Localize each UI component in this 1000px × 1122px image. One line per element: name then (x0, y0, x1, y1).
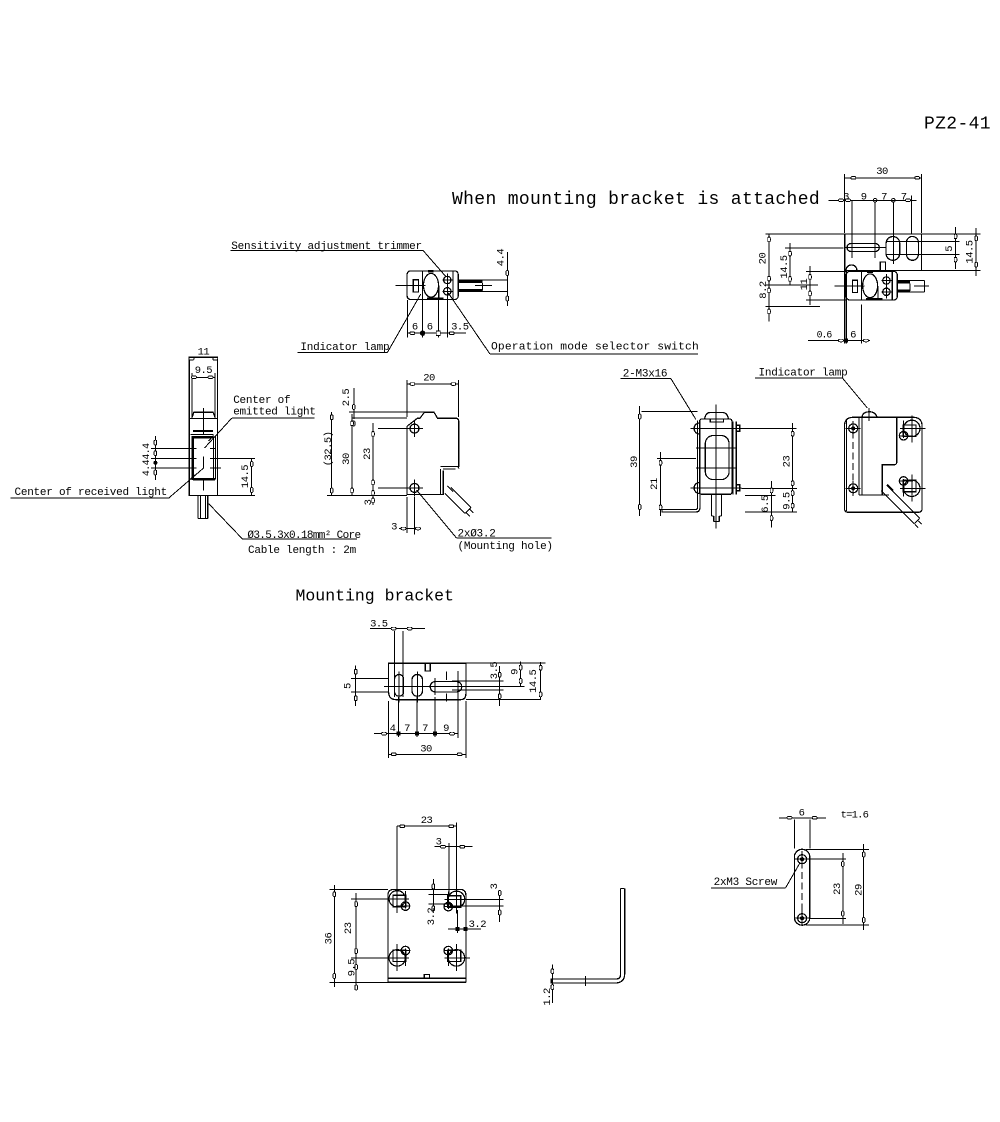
dim 14.5 (front view right) (218, 458, 255, 495)
svg-text:3: 3 (391, 522, 397, 534)
bracket left strip + bottom foot (662, 421, 700, 513)
dim 20 (side width) (407, 373, 459, 418)
svg-text:14.5: 14.5 (965, 240, 977, 263)
mounting hole (top) (406, 420, 423, 437)
dim 21 (649, 452, 696, 516)
dim 4.4 (cable dia) (496, 249, 509, 306)
svg-text:39: 39 (629, 456, 641, 468)
dim row 6 6 3.5 (407, 298, 468, 338)
svg-text:11: 11 (198, 346, 210, 358)
svg-text:3: 3 (843, 192, 849, 204)
svg-text:21: 21 (649, 478, 661, 490)
cable (diagonal, side view) (445, 486, 473, 517)
screw top (795, 852, 810, 867)
svg-text:36: 36 (323, 933, 335, 945)
svg-text:3: 3 (436, 837, 442, 849)
svg-text:3.5: 3.5 (370, 619, 388, 631)
sensor side edges (859, 417, 897, 495)
svg-text:Operation mode selector switch: Operation mode selector switch (491, 342, 699, 354)
svg-text:30: 30 (420, 744, 432, 756)
svg-text:Center of: Center of (233, 395, 290, 407)
svg-text:9: 9 (509, 669, 521, 675)
svg-text:14.5: 14.5 (528, 670, 540, 693)
svg-text:9.5: 9.5 (347, 959, 359, 977)
svg-text:29: 29 (853, 884, 865, 896)
cable (front view) (198, 496, 208, 519)
cable (bottom) (712, 494, 722, 521)
centerline dashed (801, 851, 803, 924)
svg-text:20: 20 (423, 373, 435, 385)
svg-text:Cable length : 2m: Cable length : 2m (248, 545, 357, 557)
svg-text:6: 6 (799, 808, 805, 820)
dim 9.5 (192, 365, 215, 379)
body outline (189, 357, 217, 495)
slot edge lines (5 dim refs) (886, 240, 959, 242)
notch on plate bottom (880, 262, 885, 270)
svg-text:2xØ3.2: 2xØ3.2 (458, 528, 496, 540)
svg-text:8.2: 8.2 (758, 281, 770, 299)
label: 2-M3x16 (621, 368, 696, 419)
svg-text:6: 6 (412, 322, 418, 334)
bracket flange (bent-down edge) (845, 270, 847, 343)
sensor body (top view) (395, 271, 458, 300)
svg-text:6.5: 6.5 (760, 495, 772, 513)
right vertical slot A (886, 237, 900, 261)
svg-text:9.5: 9.5 (195, 365, 213, 377)
dim 23 (screw pitch) (810, 853, 846, 924)
svg-text:7: 7 (881, 192, 887, 204)
emitted-light crosshair above window (193, 408, 213, 435)
svg-text:23: 23 (362, 448, 374, 460)
left horizontal slot (847, 244, 879, 252)
label: Operation mode selector switch (448, 293, 699, 354)
dim 30 (plate top) (845, 166, 922, 233)
svg-text:4.4: 4.4 (141, 459, 152, 476)
bracket right strip (733, 422, 740, 495)
cable (attached view, truncated) (897, 281, 929, 293)
cable (diagonal) (881, 485, 921, 528)
svg-text:30: 30 (876, 166, 888, 178)
slot 2 (vertical stadium) (412, 672, 423, 703)
dim 39 (629, 406, 698, 516)
beam centerline (vertical dashes) (202, 457, 204, 491)
body outline with trimmer bump (407, 412, 459, 494)
cable (top view) (458, 280, 507, 292)
svg-text:11: 11 (799, 279, 811, 291)
clover hole (bottom-right, mirrored xy) (899, 474, 925, 501)
svg-text:emitted light: emitted light (233, 406, 316, 418)
dim 36 (323, 885, 466, 987)
dim 14.5 (left inner) (779, 243, 844, 285)
clover hole bottom-left (384, 944, 410, 971)
dims 6.5 / 9.5 (745, 481, 797, 528)
dim 6 (width) (779, 808, 826, 849)
dim row 3 9 7 7 (828, 192, 916, 265)
plate (389, 663, 466, 699)
svg-text:(32.5): (32.5) (323, 431, 335, 466)
label: 2xO3.2 (Mounting hole) (417, 490, 553, 553)
dim 3 (bottom, hole offset) (391, 497, 420, 535)
dim 9.5 (left) (347, 959, 359, 990)
dim 23 (hole pitch) + dim 3 (vert) (362, 423, 409, 505)
svg-text:2xM3 Screw: 2xM3 Screw (714, 877, 778, 889)
svg-text:23: 23 (782, 456, 794, 468)
svg-text:Center of received light: Center of received light (15, 487, 167, 499)
svg-text:2.5: 2.5 (341, 389, 353, 407)
svg-text:5: 5 (944, 246, 956, 252)
svg-text:(Mounting hole): (Mounting hole) (458, 541, 553, 553)
bottom dims 0.6 / 6 (808, 305, 870, 344)
svg-text:23: 23 (343, 922, 355, 934)
clover hole bottom-right (444, 944, 470, 971)
svg-text:4.4: 4.4 (496, 249, 508, 267)
centerline + hole crosshairs (691, 405, 742, 529)
label: cable core / length (209, 504, 361, 558)
sensor body attached below plate (834, 271, 897, 300)
svg-text:When mounting bracket is attac: When mounting bracket is attached (452, 190, 820, 210)
plate outline (388, 889, 466, 982)
svg-text:7: 7 (422, 723, 428, 735)
dim 14.5 (far right) (921, 228, 980, 276)
dim 11 (front width) (189, 346, 218, 360)
svg-text:4.4: 4.4 (141, 443, 152, 460)
svg-text:3.2: 3.2 (426, 908, 438, 926)
right vertical slot B (907, 237, 919, 261)
svg-text:7: 7 (901, 192, 907, 204)
svg-text:0.6: 0.6 (817, 330, 833, 341)
slot centerline (384, 685, 524, 687)
cable boot notch (double L) (440, 467, 458, 495)
bracket screw (bottom) (846, 481, 861, 496)
svg-text:14.5: 14.5 (240, 465, 252, 488)
dome arc poking through plate bottom (846, 265, 857, 271)
sensor body (narrow front) (700, 412, 732, 494)
lens dome (192, 412, 215, 417)
dim 23 (left) (343, 893, 388, 963)
svg-text:6: 6 (427, 322, 433, 334)
left stacked dims 20 / 8.2 (758, 234, 845, 322)
dim 30 (bracket) (389, 701, 466, 758)
dim row 4 7 7 9 (374, 671, 458, 758)
svg-text:23: 23 (832, 883, 844, 895)
dim (32.5) (323, 412, 335, 495)
bracket side notches (left) (694, 423, 700, 494)
svg-text:14.5: 14.5 (779, 255, 791, 278)
dim 3 (top) (434, 837, 472, 895)
clover hole top-right (444, 886, 470, 913)
svg-text:9: 9 (861, 192, 867, 204)
svg-text:7: 7 (404, 723, 410, 735)
dim 11 (sensor height) (799, 266, 847, 305)
dim 1.2 (thickness) (542, 964, 554, 1005)
slot 1 (vertical stadium) (395, 672, 404, 703)
horizontal slot (430, 672, 462, 702)
svg-text:3.5: 3.5 (489, 662, 501, 680)
svg-text:3.2: 3.2 (469, 919, 487, 931)
dim 3 (right rotated) (450, 883, 504, 922)
mounting hole (bottom) (406, 479, 423, 496)
svg-text:9: 9 (443, 723, 449, 735)
svg-text:3.5: 3.5 (451, 322, 469, 334)
svg-text:6: 6 (850, 330, 856, 342)
label: Sensitivity adjustment trimmer (231, 241, 446, 277)
clover hole (top-right, mirrored) (899, 415, 925, 442)
lens window (thick) (191, 435, 216, 481)
dim 3.2 (left rotated) (426, 879, 449, 925)
screw bottom (795, 911, 810, 926)
svg-text:Mounting bracket: Mounting bracket (296, 587, 454, 606)
indicator lamp dome (862, 408, 877, 421)
label: Indicator lamp (top view) (298, 294, 421, 354)
svg-text:t=1.6: t=1.6 (841, 809, 869, 821)
dim 23 (top) (397, 815, 457, 892)
dim 3.5 (top) (370, 619, 425, 698)
stadium plate (794, 849, 809, 925)
svg-text:PZ2-41: PZ2-41 (924, 115, 991, 135)
svg-text:5: 5 (342, 683, 354, 689)
dim 29 (plate height) (805, 844, 869, 930)
svg-text:1.2: 1.2 (542, 988, 554, 1006)
dim 3.2 (bottom horizontal) (448, 908, 486, 937)
svg-text:23: 23 (421, 815, 433, 827)
bracket plate outline (844, 417, 922, 512)
svg-text:4: 4 (390, 723, 396, 735)
dim 23 (right) (742, 423, 797, 512)
svg-text:3: 3 (489, 883, 501, 889)
right dims 3.5 / 9 / 14.5 (452, 662, 545, 707)
svg-text:Sensitivity adjustment trimmer: Sensitivity adjustment trimmer (231, 241, 422, 253)
dim 5 (left) (342, 665, 389, 706)
svg-text:3: 3 (363, 499, 375, 505)
label: Center of emitted light (205, 395, 316, 448)
dim 30 (side height) (327, 414, 407, 496)
label: Center of received light (10, 468, 203, 499)
clover hole top-left (384, 886, 410, 913)
svg-text:30: 30 (341, 453, 353, 465)
label: 2xM3 Screw (711, 863, 800, 889)
svg-text:20: 20 (758, 253, 770, 265)
label: Indicator lamp (bracket view) (755, 368, 867, 408)
bracket plate (top view) (845, 234, 960, 270)
dim 2.5 (bump) (341, 388, 424, 426)
svg-text:9.5: 9.5 (782, 492, 794, 510)
screw centerline (dashed) (852, 421, 854, 496)
svg-text:Ø3.5.3x0.18mm² Core: Ø3.5.3x0.18mm² Core (247, 530, 360, 542)
dim 5 (right of plate) (944, 227, 957, 269)
4.4 / 4.4 dims (left) (141, 436, 255, 480)
bracket screw (top) (846, 421, 861, 436)
